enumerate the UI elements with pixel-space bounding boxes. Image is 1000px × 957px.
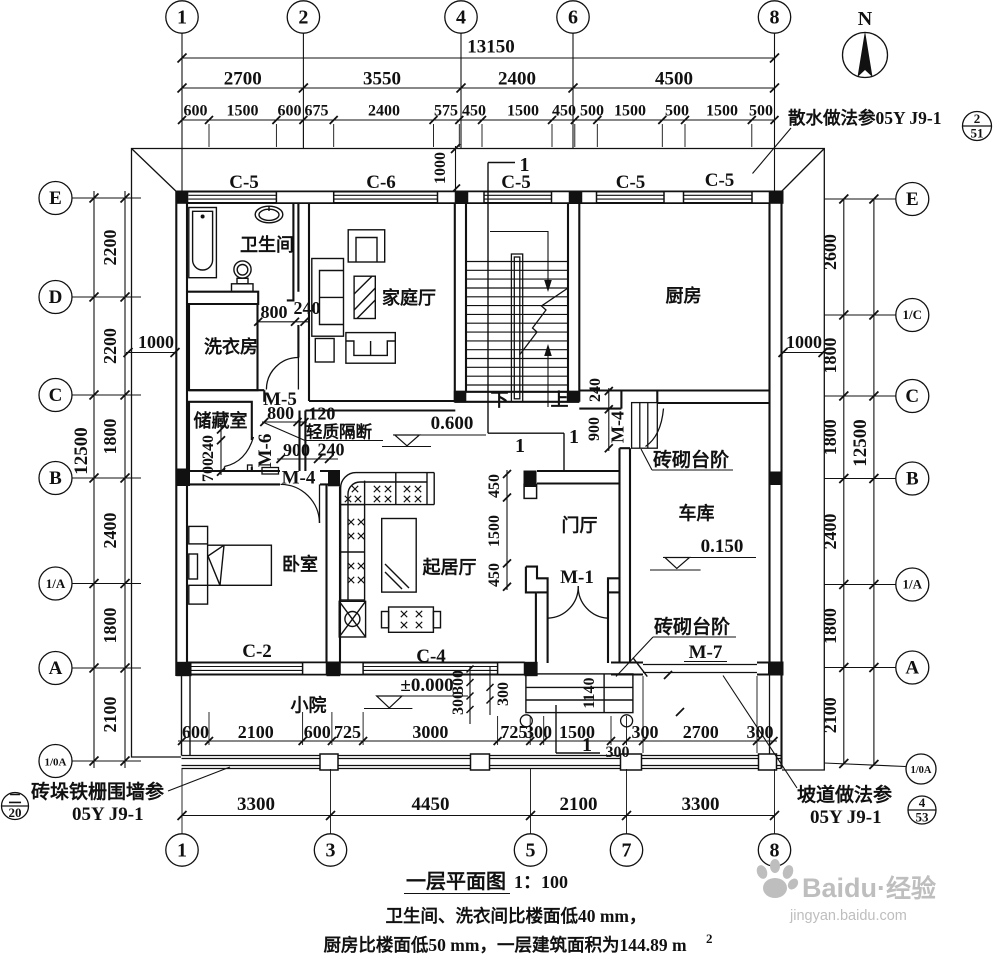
svg-text:上: 上 bbox=[551, 390, 569, 410]
svg-text:4450: 4450 bbox=[412, 794, 450, 815]
storage room box 储藏室 bbox=[189, 402, 252, 471]
svg-text:±0.000: ±0.000 bbox=[400, 675, 453, 696]
svg-text:2100: 2100 bbox=[238, 722, 274, 742]
svg-text:B: B bbox=[49, 468, 62, 489]
svg-text:8: 8 bbox=[770, 7, 780, 29]
svg-text:1000: 1000 bbox=[432, 152, 449, 184]
svg-text:C-5: C-5 bbox=[705, 170, 735, 191]
living room table (with corner diagonals) bbox=[382, 519, 417, 593]
exterior wall: bottom (A axis) outer+inner segments bbox=[176, 673, 537, 675]
svg-text:3300: 3300 bbox=[237, 794, 275, 815]
svg-text:C-4: C-4 bbox=[416, 646, 446, 667]
bottom fence (1/0A) rails bbox=[182, 755, 782, 757]
door M-5 leaf and swing bbox=[297, 358, 299, 390]
svg-text:240: 240 bbox=[318, 440, 345, 460]
family hall sofa (bottom, 2-seat) bbox=[346, 333, 395, 364]
svg-text:1500: 1500 bbox=[559, 722, 595, 742]
dimension 800/240 bathroom door bbox=[257, 321, 308, 323]
svg-text:1/0A: 1/0A bbox=[45, 757, 67, 769]
svg-text:450: 450 bbox=[462, 103, 486, 120]
svg-text:2: 2 bbox=[298, 7, 308, 29]
right axis circles E 1/C C B 1/A A 1/0A bbox=[896, 183, 929, 216]
svg-text:1800: 1800 bbox=[820, 419, 840, 455]
svg-text:Baidu·经验: Baidu·经验 bbox=[802, 873, 936, 903]
entrance hall east wall / garage west wall bbox=[618, 448, 620, 662]
svg-text:675: 675 bbox=[305, 103, 329, 120]
dims 240 and 900 at kitchen door bbox=[605, 405, 613, 413]
living room sectional sofa vertical part bbox=[341, 505, 365, 600]
svg-text:M-4: M-4 bbox=[608, 411, 628, 443]
svg-text:C-5: C-5 bbox=[616, 172, 646, 193]
wall piers between windows (top band) bbox=[276, 192, 333, 204]
vertical 1000 dimension at axis 4 (apron width) bbox=[455, 146, 457, 191]
svg-text:2700: 2700 bbox=[224, 69, 262, 90]
svg-text:4500: 4500 bbox=[655, 69, 693, 90]
dimension line 13150 bbox=[182, 57, 775, 59]
svg-text:M-7: M-7 bbox=[689, 642, 723, 663]
bathroom south wall (two lines, closed at door jamb) bbox=[187, 292, 258, 304]
bathroom east wall line with door jamb hook bbox=[287, 203, 294, 300]
exterior wall: left (axis 1) bbox=[175, 192, 177, 677]
left axis circles E D C B 1/A A 1/0A bbox=[39, 182, 72, 215]
svg-text:600: 600 bbox=[184, 103, 208, 120]
svg-text:725: 725 bbox=[500, 722, 527, 742]
left chain dimension line bbox=[124, 191, 126, 768]
dimension 240/700 storage door bbox=[220, 426, 222, 475]
svg-text:500: 500 bbox=[580, 103, 604, 120]
exterior wall: top (E axis) outer+inner lines bbox=[176, 190, 781, 192]
svg-text:300: 300 bbox=[606, 744, 630, 761]
svg-text:300: 300 bbox=[450, 691, 467, 715]
svg-text:120: 120 bbox=[308, 404, 335, 424]
svg-text:轻质隔断: 轻质隔断 bbox=[306, 422, 373, 442]
svg-text:砖砌台阶: 砖砌台阶 bbox=[653, 448, 730, 471]
svg-text:2: 2 bbox=[974, 111, 981, 126]
svg-text:51: 51 bbox=[971, 126, 984, 141]
svg-text:3300: 3300 bbox=[682, 794, 720, 815]
stairwell corner black columns (bottom) bbox=[454, 391, 467, 403]
stair center handrail bbox=[511, 254, 522, 402]
svg-text:卫生间: 卫生间 bbox=[240, 234, 294, 255]
svg-text:3000: 3000 bbox=[412, 722, 448, 742]
exterior wall: right (axis 8) bbox=[780, 192, 782, 675]
svg-text:坡道做法参: 坡道做法参 bbox=[797, 783, 892, 806]
svg-text:2100: 2100 bbox=[560, 794, 598, 815]
baidu watermark paw bbox=[755, 859, 800, 898]
svg-text:800: 800 bbox=[261, 302, 288, 322]
svg-text:240: 240 bbox=[587, 378, 604, 402]
svg-text:1：100: 1：100 bbox=[514, 872, 568, 892]
black columns bottom band bbox=[176, 662, 191, 676]
svg-text:1800: 1800 bbox=[820, 338, 840, 374]
entrance steps platform bbox=[526, 674, 633, 713]
svg-text:8: 8 bbox=[770, 840, 780, 862]
right 1000 dimension (apron at 1/C) bbox=[782, 352, 825, 354]
family hall sofa (left, 2-seat) bbox=[312, 259, 344, 337]
svg-text:4: 4 bbox=[456, 7, 466, 29]
svg-text:1/A: 1/A bbox=[46, 576, 66, 591]
M-1 jamb stubs at entrance bbox=[608, 578, 620, 663]
stair treads bbox=[466, 261, 568, 263]
svg-text:1800: 1800 bbox=[100, 419, 120, 455]
svg-text:1800: 1800 bbox=[100, 608, 120, 644]
light partition 轻质隔断 at landing bbox=[298, 411, 300, 472]
section line jog at family hall bbox=[488, 432, 564, 434]
svg-text:2400: 2400 bbox=[498, 69, 536, 90]
svg-text:下: 下 bbox=[491, 390, 509, 410]
top axis extension lines bbox=[181, 34, 183, 192]
svg-text:05Y J9-1: 05Y J9-1 bbox=[810, 807, 882, 828]
left axis lines with ticks bbox=[72, 197, 141, 199]
svg-text:C-6: C-6 bbox=[366, 172, 396, 193]
svg-text:05Y J9-1: 05Y J9-1 bbox=[72, 804, 144, 825]
svg-text:M-4: M-4 bbox=[282, 468, 316, 489]
svg-text:1: 1 bbox=[177, 7, 187, 29]
door M-4 (bedroom) leaf and swing bbox=[319, 484, 321, 523]
svg-text:12500: 12500 bbox=[71, 427, 92, 475]
svg-text:M-1: M-1 bbox=[560, 567, 594, 588]
svg-text:300: 300 bbox=[450, 670, 467, 694]
svg-text:240: 240 bbox=[200, 435, 217, 459]
entrance hall west wall with opening bbox=[524, 484, 537, 498]
living room small table bbox=[389, 607, 434, 632]
door M-1 double swing bbox=[548, 586, 578, 618]
svg-text:900: 900 bbox=[586, 417, 603, 441]
svg-text:500: 500 bbox=[749, 103, 773, 120]
black column right wall at B bbox=[770, 472, 782, 486]
svg-text:20: 20 bbox=[9, 805, 22, 820]
svg-text:300: 300 bbox=[525, 722, 552, 742]
svg-text:900: 900 bbox=[283, 440, 310, 460]
svg-text:0.600: 0.600 bbox=[431, 413, 474, 434]
dimension line 2700/3550/2400/4500 bbox=[182, 87, 775, 89]
partition wall bath/laundry strip vs family hall bbox=[297, 203, 299, 292]
svg-text:5: 5 bbox=[526, 840, 536, 862]
svg-text:厨房: 厨房 bbox=[666, 285, 702, 306]
svg-text:2400: 2400 bbox=[100, 513, 120, 549]
svg-text:1500: 1500 bbox=[507, 103, 539, 120]
svg-text:600: 600 bbox=[182, 722, 209, 742]
laundry room box bbox=[189, 304, 258, 390]
svg-text:1: 1 bbox=[515, 435, 525, 457]
kitchen door brick steps bbox=[632, 403, 658, 449]
svg-text:1/C: 1/C bbox=[903, 307, 923, 322]
svg-text:1140: 1140 bbox=[581, 677, 598, 708]
left 1000 dimension (apron) bbox=[126, 352, 176, 354]
svg-text:450: 450 bbox=[486, 474, 503, 498]
svg-text:575: 575 bbox=[434, 103, 458, 120]
svg-text:1: 1 bbox=[177, 840, 187, 862]
svg-text:13150: 13150 bbox=[467, 37, 515, 58]
stairwell west wall bbox=[454, 203, 456, 402]
svg-text:储藏室: 储藏室 bbox=[193, 410, 248, 431]
svg-text:M-6: M-6 bbox=[255, 434, 276, 468]
window C-5 #3 bbox=[597, 191, 665, 193]
svg-text:1500: 1500 bbox=[486, 515, 503, 547]
step handrail post circles bbox=[520, 715, 532, 727]
family hall coffee table (hatched) bbox=[354, 276, 375, 318]
svg-text:1: 1 bbox=[569, 426, 579, 448]
living room sectional sofa top row bbox=[341, 473, 435, 505]
stairwell east wall bbox=[567, 203, 569, 392]
wall piers bottom band bbox=[303, 663, 327, 675]
svg-text:E: E bbox=[49, 188, 62, 209]
svg-text:2: 2 bbox=[706, 931, 713, 946]
dimension 900/240 bedroom door bbox=[277, 458, 338, 460]
svg-text:725: 725 bbox=[334, 722, 361, 742]
family hall south wall bbox=[309, 400, 455, 402]
kitchen door M-4 swing bbox=[646, 409, 664, 447]
svg-text:1/A: 1/A bbox=[903, 577, 923, 592]
svg-text:300: 300 bbox=[632, 722, 659, 742]
svg-text:卫生间、洗衣间比楼面低40 mm，: 卫生间、洗衣间比楼面低40 mm， bbox=[385, 906, 646, 926]
svg-text:2100: 2100 bbox=[100, 697, 120, 733]
svg-text:家庭厅: 家庭厅 bbox=[382, 287, 436, 308]
svg-text:C-5: C-5 bbox=[229, 172, 259, 193]
window C-5 #4 bbox=[684, 191, 753, 193]
step dims 300x3 bbox=[469, 666, 471, 724]
laundry wall lower line / landing edge bbox=[189, 389, 264, 391]
right chain dimension line bbox=[843, 199, 845, 764]
leader line for apron note bbox=[753, 128, 792, 174]
svg-text:12500: 12500 bbox=[850, 419, 871, 467]
bedroom east wall bbox=[325, 484, 327, 662]
washbasin bbox=[234, 261, 251, 278]
right total dimension line 12500 bbox=[873, 199, 875, 765]
svg-text:jingyan.baidu.com: jingyan.baidu.com bbox=[789, 908, 907, 924]
svg-text:600: 600 bbox=[304, 722, 331, 742]
svg-text:2600: 2600 bbox=[820, 234, 840, 270]
svg-text:1/0A: 1/0A bbox=[911, 765, 932, 776]
svg-text:砖砌台阶: 砖砌台阶 bbox=[654, 615, 731, 638]
svg-text:4: 4 bbox=[919, 795, 926, 810]
svg-text:2400: 2400 bbox=[820, 514, 840, 550]
black columns top band bbox=[176, 191, 188, 204]
left total dimension line 12500 bbox=[93, 191, 95, 768]
bottom axis circles 1 3 5 7 8 bbox=[166, 834, 198, 866]
window C-5 #1 bbox=[188, 191, 209, 193]
svg-text:1500: 1500 bbox=[614, 103, 646, 120]
svg-text:洗衣房: 洗衣房 bbox=[204, 336, 258, 357]
svg-text:C: C bbox=[905, 386, 919, 407]
svg-text:D: D bbox=[49, 287, 63, 308]
svg-text:小院: 小院 bbox=[291, 695, 327, 716]
svg-text:散水做法参05Y J9-1: 散水做法参05Y J9-1 bbox=[788, 108, 941, 128]
svg-text:450: 450 bbox=[552, 103, 576, 120]
windows bottom band C-2 and C-4 bbox=[192, 662, 303, 664]
entrance hall north wall bbox=[537, 470, 620, 472]
svg-text:53: 53 bbox=[916, 810, 930, 825]
top axis grid circles bbox=[166, 1, 198, 33]
svg-text:A: A bbox=[905, 658, 919, 679]
svg-text:7: 7 bbox=[622, 840, 632, 862]
svg-text:M-5: M-5 bbox=[263, 389, 297, 410]
svg-text:300: 300 bbox=[495, 682, 512, 706]
svg-text:C: C bbox=[49, 385, 63, 406]
svg-text:2400: 2400 bbox=[368, 103, 400, 120]
svg-text:500: 500 bbox=[665, 103, 689, 120]
svg-text:3550: 3550 bbox=[363, 69, 401, 90]
right axis lines with ticks bbox=[824, 198, 895, 200]
bathtub bbox=[189, 208, 217, 278]
svg-text:0.150: 0.150 bbox=[701, 536, 744, 557]
bottom main dimension line 3300/4450/2100/3300 bbox=[182, 815, 775, 817]
svg-text:6: 6 bbox=[568, 7, 578, 29]
apron corner diagonal TR bbox=[782, 149, 825, 192]
north arrow bbox=[843, 8, 888, 78]
yard west fence wall bbox=[181, 676, 183, 756]
door M-6 swing arc bbox=[225, 437, 254, 467]
svg-text:一层平面图: 一层平面图 bbox=[406, 870, 506, 893]
black columns at B wall bbox=[176, 469, 190, 487]
window C-6 bbox=[334, 191, 438, 193]
dims 450/1500/450 entrance hall west bbox=[506, 470, 508, 590]
svg-text:C-2: C-2 bbox=[242, 641, 272, 662]
svg-text:1500: 1500 bbox=[706, 103, 738, 120]
svg-text:门厅: 门厅 bbox=[562, 515, 598, 536]
ramp edges below garage door bbox=[642, 676, 644, 753]
svg-text:2200: 2200 bbox=[100, 230, 120, 266]
svg-text:卧室: 卧室 bbox=[282, 554, 318, 575]
stair break line (diagonal with zigzag) bbox=[520, 288, 569, 355]
svg-text:车库: 车库 bbox=[679, 503, 715, 524]
svg-text:A: A bbox=[49, 658, 63, 679]
svg-text:起居厅: 起居厅 bbox=[422, 557, 477, 578]
family hall armchair (top) bbox=[348, 230, 385, 262]
detail circle 2/51 bbox=[963, 111, 992, 141]
svg-text:3: 3 bbox=[326, 840, 336, 862]
svg-text:240: 240 bbox=[294, 298, 321, 318]
svg-text:N: N bbox=[858, 8, 873, 30]
svg-text:1000: 1000 bbox=[138, 332, 174, 352]
svg-text:E: E bbox=[906, 189, 919, 210]
B axis wall (two lines) with M-4 opening bbox=[187, 470, 280, 472]
door M-6 threshold pieces bbox=[248, 465, 253, 471]
svg-text:B: B bbox=[906, 469, 919, 490]
family hall side table bbox=[315, 339, 334, 363]
svg-text:600: 600 bbox=[278, 103, 302, 120]
svg-text:450: 450 bbox=[486, 563, 503, 587]
svg-text:1000: 1000 bbox=[786, 332, 822, 352]
dimension 800/120 bbox=[262, 421, 307, 423]
fine dimension chain 600/1500/600/675/2400/575/450... bbox=[182, 119, 775, 121]
toilet bbox=[255, 206, 283, 223]
svg-text:2200: 2200 bbox=[100, 328, 120, 364]
stair up arrow bbox=[547, 352, 549, 407]
stair down arrow bbox=[490, 232, 548, 285]
bed (bedroom) bbox=[189, 526, 208, 544]
svg-text:2100: 2100 bbox=[820, 697, 840, 733]
yard dimension chain bbox=[178, 740, 777, 742]
svg-text:1800: 1800 bbox=[820, 608, 840, 644]
svg-text:2700: 2700 bbox=[683, 722, 719, 742]
svg-text:砖垛铁栅围墙参: 砖垛铁栅围墙参 bbox=[31, 780, 164, 803]
fence posts bbox=[320, 754, 338, 770]
svg-text:厨房比楼面低50 mm，一层建筑面积为144.89 m: 厨房比楼面低50 mm，一层建筑面积为144.89 m bbox=[323, 935, 687, 955]
stairwell south wall bbox=[455, 391, 580, 393]
svg-text:二: 二 bbox=[8, 791, 21, 806]
svg-text:C-5: C-5 bbox=[501, 172, 531, 193]
apron corner diagonal TL bbox=[132, 149, 177, 192]
garage door M-7 (closed, double line) bbox=[643, 664, 757, 666]
window C-5 #2 bbox=[484, 191, 552, 193]
kitchen south wall with M-4 door opening bbox=[579, 389, 769, 391]
section line 1-1 upper bbox=[488, 162, 515, 164]
svg-text:1500: 1500 bbox=[227, 103, 259, 120]
section line 1-1 lower bbox=[555, 705, 557, 753]
plant/lamp square with X bbox=[339, 601, 365, 637]
right wall extension below garage to fence bbox=[780, 675, 782, 769]
apron (san-shui) outline bbox=[132, 149, 825, 771]
